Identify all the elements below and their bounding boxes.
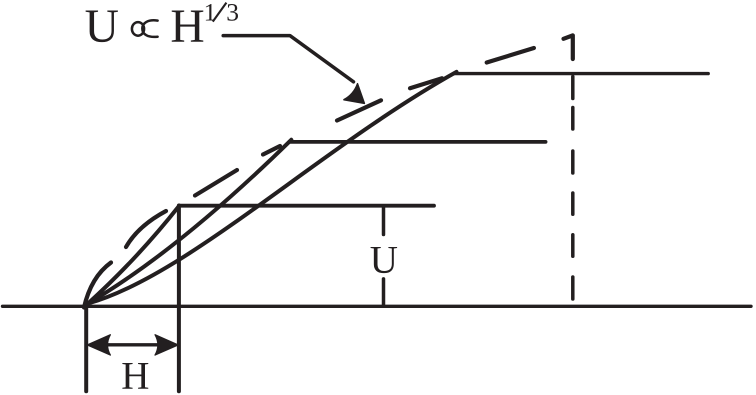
vertical dashed line segment 3: [571, 151, 575, 173]
proportional-to symbol: [132, 20, 158, 37]
vertical dashed line segment 6: [571, 277, 575, 299]
envelope dash 6: [410, 78, 442, 88]
U measurement tick lower segment: [382, 279, 386, 305]
envelope dash 7: [487, 48, 534, 63]
envelope dash 5: [337, 100, 381, 120]
vertical dashed line segment 5: [571, 235, 575, 256]
envelope dash 2: [126, 211, 166, 247]
leader line from label: [223, 36, 353, 82]
U measurement tick upper segment: [382, 207, 386, 235]
ground baseline: [3, 305, 752, 308]
envelope dash 8 (hook into top of vertical dashed line): [564, 35, 573, 59]
envelope dash 1 (arc at origin): [84, 263, 111, 308]
leader arrowhead: [344, 84, 365, 104]
H arrowhead right: [155, 335, 178, 355]
svg-text:3: 3: [226, 0, 239, 27]
svg-text:H: H: [170, 1, 204, 53]
plateau 2: [289, 140, 545, 144]
vertical dashed line segment 2: [571, 108, 575, 130]
H arrowhead left: [87, 335, 110, 355]
envelope dash 3: [195, 170, 237, 196]
envelope dash 4: [263, 146, 280, 155]
svg-text:U: U: [370, 238, 398, 281]
profile 3 rising curve (origin to knee 3): [88, 72, 457, 304]
vertical dashed line segment 4: [571, 193, 575, 214]
profile 2 rising curve (origin to knee 2): [88, 140, 291, 304]
svg-text:H: H: [121, 355, 149, 395]
vertical dashed line segment 1: [571, 77, 575, 99]
vertical line at origin (left edge of H interval): [84, 305, 88, 391]
plateau 3: [455, 72, 709, 75]
H double arrow shaft: [101, 343, 165, 346]
svg-text:U: U: [85, 1, 119, 53]
profile 1 rising line (origin to knee 1): [88, 206, 179, 304]
vertical line at knee 1 (right edge of H interval): [177, 206, 181, 392]
plateau 1: [179, 204, 434, 208]
svg-text:1: 1: [204, 0, 217, 27]
